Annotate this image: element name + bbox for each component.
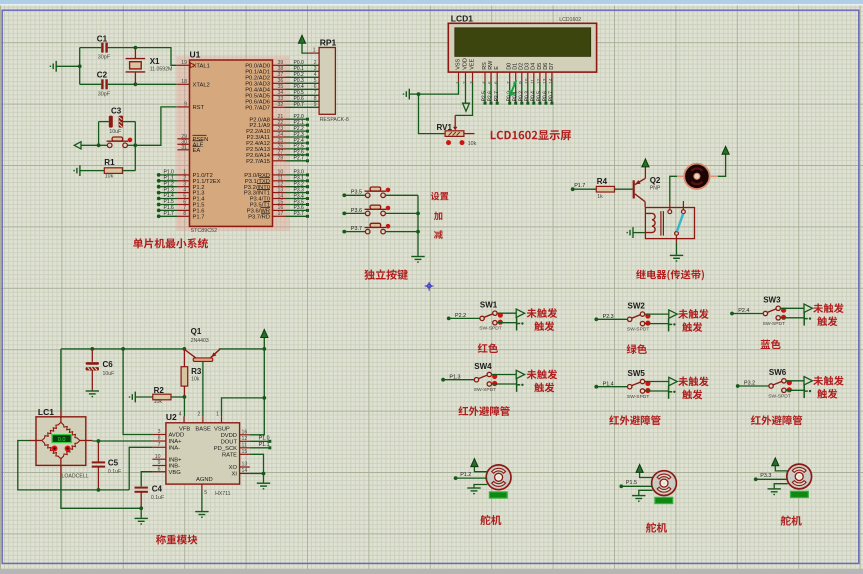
svg-text:10k: 10k bbox=[191, 377, 200, 383]
SW3 state label 触发 bbox=[817, 316, 837, 326]
green selection arrow bbox=[510, 80, 517, 95]
servo motor 3 top slot bbox=[792, 467, 806, 472]
svg-text:SW2: SW2 bbox=[628, 302, 646, 311]
svg-text:PNP: PNP bbox=[650, 185, 661, 191]
wire: reset to R1 bbox=[134, 145, 136, 170]
switch SW4 throw1 contact bbox=[487, 372, 491, 376]
svg-text:P1.1: P1.1 bbox=[259, 442, 270, 448]
LCD1 screen bbox=[455, 28, 591, 57]
svg-text:8: 8 bbox=[158, 436, 161, 442]
svg-text:LCD1602: LCD1602 bbox=[559, 17, 581, 23]
pin P0.6 stub bbox=[273, 100, 286, 102]
svg-text:C1: C1 bbox=[97, 35, 108, 44]
servo motor 3 hub center bbox=[798, 475, 801, 478]
wire: gnd to R2 bbox=[135, 396, 153, 398]
svg-text:P0.4: P0.4 bbox=[530, 91, 536, 102]
svg-text:10k: 10k bbox=[154, 399, 163, 405]
switch SW2 input net dot bbox=[594, 317, 598, 321]
P3.3 name overline bbox=[257, 189, 270, 191]
svg-text:INB+: INB+ bbox=[169, 457, 183, 463]
motor left lead bbox=[677, 175, 684, 177]
servo motor 1 gnd wire bbox=[474, 485, 487, 489]
svg-text:P1.7: P1.7 bbox=[574, 183, 585, 189]
junction: RATE/XI bbox=[262, 472, 266, 476]
pin PSEN stub bbox=[177, 138, 189, 140]
wire: R2 to VFB node bbox=[171, 396, 184, 398]
switch SW6 throw1 contact bbox=[782, 379, 786, 383]
node P3.5 (button) bbox=[342, 193, 346, 197]
switch SW5 terminal arrow bbox=[669, 377, 677, 385]
wire: LCD D4 net bbox=[533, 81, 535, 102]
junction: VSS/RV1 bbox=[417, 92, 421, 96]
junction: reset node bbox=[133, 143, 137, 147]
switch SW4 throw1 wire bbox=[492, 374, 517, 376]
U2 pin INB- stub bbox=[152, 465, 166, 467]
svg-text:19: 19 bbox=[181, 60, 187, 66]
svg-text:XO: XO bbox=[229, 465, 238, 471]
resistor R1 (10k) bbox=[104, 168, 122, 174]
RV1 wiper arrow bbox=[453, 127, 457, 131]
LCD pin D5 stub bbox=[539, 72, 541, 81]
servo motor 2 caption 舵机 bbox=[646, 522, 667, 532]
switch SW2 terminal bar bbox=[669, 318, 673, 331]
svg-text:P2.3: P2.3 bbox=[603, 314, 614, 320]
svg-text:11: 11 bbox=[242, 442, 247, 448]
ground (RATE/XI) bbox=[257, 483, 270, 489]
svg-text:SW6: SW6 bbox=[769, 368, 787, 377]
svg-text:LOADCELL: LOADCELL bbox=[62, 473, 89, 479]
ground (buttons) bbox=[411, 257, 424, 263]
node P2.5 wire end bbox=[484, 102, 487, 105]
ground (R1) bbox=[74, 165, 80, 176]
motor right lead bbox=[710, 175, 719, 177]
wire: P1.7 net bbox=[159, 215, 178, 217]
power terminal (motor) bbox=[722, 146, 729, 154]
switch SW3 input net dot bbox=[730, 312, 734, 316]
svg-text:11.0592M: 11.0592M bbox=[150, 67, 173, 73]
LC1 bridge resistor b bbox=[61, 422, 80, 440]
switch SW6 throw2 wire bbox=[786, 389, 804, 391]
switch SW3 throw1 wire bbox=[780, 307, 804, 309]
capacitor C5 (0.1uF) bbox=[92, 462, 105, 466]
servo motor 1 hub bbox=[495, 473, 503, 481]
wire: gnd to R1 bbox=[80, 170, 104, 172]
wire: LCD RS net bbox=[484, 81, 486, 102]
pin P2.2 stub bbox=[273, 130, 286, 132]
servo motor 3 caption 舵机 bbox=[781, 515, 802, 525]
chip U1 body bbox=[190, 60, 273, 226]
ground (C4/LC1) bbox=[135, 518, 148, 524]
switch SW4 lever bbox=[479, 375, 488, 379]
svg-text:RESPACK-8: RESPACK-8 bbox=[320, 117, 349, 123]
svg-text:P0.1: P0.1 bbox=[512, 91, 518, 102]
node P1.0 wire end bbox=[268, 440, 271, 443]
U2 pin VFB stub bbox=[183, 416, 185, 423]
svg-text:XTAL2: XTAL2 bbox=[193, 82, 210, 88]
wire: LC1 left loop bbox=[18, 441, 129, 490]
caption 称重模块 bbox=[156, 535, 197, 545]
caption 独立按键 bbox=[364, 269, 408, 280]
svg-text:P3.2: P3.2 bbox=[744, 381, 755, 387]
node P1.7 wire end bbox=[157, 214, 161, 218]
node P3.7 wire end bbox=[306, 215, 309, 218]
svg-text:10: 10 bbox=[524, 78, 530, 84]
junction: R3/R2/VFB bbox=[183, 395, 187, 399]
svg-text:P2.7: P2.7 bbox=[494, 91, 500, 102]
motor bottom slot bbox=[691, 182, 702, 185]
wire: R1 to reset node bbox=[123, 170, 136, 172]
LC1 bottom pin stub bbox=[60, 459, 62, 478]
transistor Q1 collector lead bbox=[185, 350, 196, 358]
wire: VFB riser bbox=[183, 397, 185, 416]
wire: C1 right bbox=[108, 47, 136, 49]
wire: arrow to button bbox=[81, 144, 108, 146]
pin P0.2 stub bbox=[273, 76, 286, 78]
SW5 state label 触发 bbox=[682, 390, 702, 400]
servo motor 3 body bbox=[787, 464, 812, 489]
LCD pin D7 stub bbox=[551, 72, 553, 81]
svg-text:1k: 1k bbox=[597, 194, 603, 200]
wire: Q1 emitter to power rail bbox=[219, 348, 264, 350]
switch SW4 terminal bar bbox=[517, 378, 521, 391]
switch SW2 pole wire bbox=[596, 318, 627, 320]
wire: P0.4 to RP1 bbox=[286, 88, 320, 90]
servo motor 3 vcc power arrow bbox=[772, 458, 779, 466]
svg-text:SW-SPDT: SW-SPDT bbox=[479, 326, 501, 332]
transistor Q2 base bar bbox=[633, 180, 635, 198]
svg-text:RP1: RP1 bbox=[320, 37, 337, 47]
switch SW2 terminal arrow bbox=[669, 310, 677, 318]
LC1 button right bbox=[65, 446, 71, 452]
resistor R4 (1k) bbox=[596, 186, 614, 192]
wire: reset to RST pin bbox=[135, 107, 177, 145]
svg-text:SW5: SW5 bbox=[628, 369, 646, 378]
junction: C5 bottom bbox=[97, 488, 101, 492]
LCD1 body bbox=[448, 23, 596, 72]
svg-text:7: 7 bbox=[158, 442, 161, 448]
wire: P1.5 net bbox=[159, 204, 178, 206]
svg-text:12: 12 bbox=[536, 78, 542, 84]
SW2 state label 触发 bbox=[682, 322, 702, 332]
LCD pin RW stub bbox=[490, 72, 492, 81]
wire: LCD D0 net bbox=[509, 81, 511, 102]
LC1 bridge resistor a bbox=[42, 422, 61, 440]
ALE overline bbox=[193, 140, 204, 142]
C5 bottom lead bbox=[97, 467, 99, 490]
ground (crystal circuit) bbox=[50, 61, 56, 72]
wire: P3.4 net bbox=[286, 198, 307, 200]
svg-text:15: 15 bbox=[242, 449, 248, 455]
switch SW6 lever bbox=[773, 381, 782, 385]
node P1.4 wire end bbox=[157, 197, 161, 201]
U2 pin VSUP stub bbox=[221, 416, 223, 423]
switch SW3 throw2 contact bbox=[776, 316, 780, 320]
node P0.2 wire end bbox=[520, 102, 523, 105]
svg-text:P0.7: P0.7 bbox=[294, 102, 305, 108]
P3.1 name overline bbox=[259, 177, 270, 179]
wire: P3.7 to button bbox=[344, 231, 365, 233]
U2 pin DOUT stub bbox=[240, 440, 250, 442]
caption 设置 bbox=[431, 192, 449, 201]
node P0.5 wire end bbox=[538, 102, 541, 105]
capacitor C6 (10uF) bbox=[86, 362, 99, 370]
servo motor 1 vcc wire bbox=[474, 467, 487, 472]
wire: P0.7 to RP1 bbox=[286, 106, 320, 108]
switch SW6 pole contact bbox=[769, 384, 773, 388]
svg-text:12: 12 bbox=[242, 436, 248, 442]
pin P0.3 stub bbox=[273, 82, 286, 84]
svg-text:9: 9 bbox=[184, 101, 187, 107]
wire: VEE to wiper bbox=[455, 81, 472, 115]
switch SW3 lever bbox=[767, 309, 776, 313]
wire: P2.6 net bbox=[286, 154, 307, 156]
svg-text:4: 4 bbox=[481, 81, 487, 84]
wire: button 加 to gnd bus bbox=[385, 212, 418, 214]
LC1 display bbox=[52, 435, 71, 443]
junction: Q1 collector bbox=[183, 347, 187, 351]
caption 红外避障管 bbox=[458, 406, 509, 416]
wire: X1 top pin bbox=[134, 48, 136, 59]
node P2.6 wire end bbox=[490, 102, 493, 105]
svg-text:SW3: SW3 bbox=[763, 296, 781, 305]
SW2 state label 未触发 bbox=[678, 309, 708, 319]
caption 加 bbox=[434, 212, 442, 221]
wire: C3 left bbox=[99, 121, 109, 123]
svg-text:INA+: INA+ bbox=[169, 439, 183, 445]
wire: VSS bus to RV1 bbox=[419, 94, 446, 134]
caption LCD1602显示屏 bbox=[491, 130, 571, 140]
pin P2.5 stub bbox=[273, 148, 286, 150]
node P2.6 wire end bbox=[306, 153, 309, 156]
wire: xtal bus vertical bbox=[79, 48, 81, 85]
svg-text:R4: R4 bbox=[597, 177, 608, 186]
svg-text:1: 1 bbox=[216, 412, 219, 418]
U2 pin XO stub bbox=[240, 466, 250, 468]
wire: LCD D2 net bbox=[521, 81, 523, 102]
svg-text:10uF: 10uF bbox=[103, 371, 115, 377]
switch SW3 toggle dot 2 bbox=[781, 315, 786, 320]
resistor R3 (10k) bbox=[181, 367, 188, 386]
wire: P3.6 to button bbox=[344, 212, 365, 214]
svg-text:E: E bbox=[494, 66, 500, 70]
wire: button 减 to gnd bus bbox=[385, 231, 418, 233]
wire: P0.6 to RP1 bbox=[286, 100, 320, 102]
pin P2.0 stub bbox=[273, 118, 286, 120]
svg-text:2: 2 bbox=[198, 412, 201, 418]
svg-text:18: 18 bbox=[181, 79, 187, 85]
svg-text:P2.2: P2.2 bbox=[455, 313, 466, 319]
resistor pack RP1 bbox=[319, 48, 335, 115]
pin P3.4 stub bbox=[273, 198, 286, 200]
push button (reset) bbox=[107, 137, 129, 148]
caption 绿色 bbox=[627, 344, 647, 354]
svg-text:10: 10 bbox=[155, 454, 161, 460]
svg-text:P1.7: P1.7 bbox=[193, 214, 205, 220]
svg-text:SW-SPDT: SW-SPDT bbox=[768, 393, 790, 399]
svg-text:C6: C6 bbox=[103, 360, 114, 369]
switch SW1 input net dot bbox=[447, 317, 451, 321]
svg-text:VDD: VDD bbox=[462, 58, 468, 70]
svg-text:R2: R2 bbox=[154, 386, 165, 395]
push button 设置 bbox=[365, 187, 387, 198]
wire: P3.7 net bbox=[286, 215, 307, 217]
power terminal (RP1) bbox=[298, 35, 305, 43]
pin RST stub bbox=[177, 106, 189, 108]
svg-text:Q1: Q1 bbox=[191, 327, 202, 336]
wire: P1.1 net bbox=[159, 180, 178, 182]
svg-text:10k: 10k bbox=[105, 174, 114, 180]
RV1 track marks bbox=[449, 132, 460, 135]
wire: P3.5 to button bbox=[344, 194, 365, 196]
svg-text:SW-SPDT: SW-SPDT bbox=[627, 327, 649, 333]
C4 bottom lead bbox=[140, 492, 142, 509]
U2 pin RATE stub bbox=[240, 453, 250, 455]
wire: button gnd bus bbox=[417, 195, 419, 256]
junction: emitter/power bbox=[262, 347, 266, 351]
wire: XI net bbox=[250, 473, 264, 475]
crystal X1 bbox=[126, 59, 146, 72]
wire: P3.5 net bbox=[286, 204, 307, 206]
XTAL1 clock mark bbox=[190, 63, 195, 68]
U2 pin XI stub bbox=[240, 473, 250, 475]
node P2.0 wire end bbox=[306, 118, 309, 121]
switch SW5 throw1 wire bbox=[645, 381, 669, 383]
svg-text:DVDD: DVDD bbox=[221, 433, 237, 439]
pin P3.0 stub bbox=[273, 174, 286, 176]
relay contact pole bbox=[675, 232, 679, 236]
pin P3.2 stub bbox=[273, 186, 286, 188]
transistor Q2 collector bbox=[635, 194, 645, 202]
switch SW2 throw1 contact bbox=[640, 312, 644, 316]
svg-text:SW-SPDT: SW-SPDT bbox=[763, 321, 785, 327]
wire: LCD D6 net bbox=[545, 81, 547, 102]
svg-text:14: 14 bbox=[548, 78, 554, 84]
caption 减 bbox=[434, 230, 443, 239]
junction: VSUP/power bbox=[262, 396, 266, 400]
pin P2.7 stub bbox=[273, 160, 286, 162]
U2 pin PD_SCK stub bbox=[240, 447, 250, 449]
wire: C1 left bbox=[80, 47, 102, 49]
motor body bbox=[684, 164, 709, 189]
servo motor 1 hub center bbox=[497, 476, 500, 479]
svg-text:AVDD: AVDD bbox=[169, 433, 185, 439]
wire: XTAL2 net bbox=[135, 83, 177, 85]
SW3 state label 未触发 bbox=[813, 303, 843, 313]
switch SW5 pole contact bbox=[628, 385, 632, 389]
servo motor 2 mount base bbox=[655, 497, 673, 503]
wire: button 设置 to gnd bus bbox=[385, 194, 418, 196]
svg-text:VSS: VSS bbox=[455, 58, 461, 69]
svg-text:R3: R3 bbox=[191, 367, 202, 376]
SW6 state label 未触发 bbox=[813, 376, 843, 386]
svg-text:P2.4: P2.4 bbox=[738, 308, 749, 314]
pin P1.3 stub bbox=[177, 192, 189, 194]
svg-text:P2.6: P2.6 bbox=[488, 91, 494, 102]
switch SW1 terminal bar bbox=[517, 317, 521, 330]
RV1 wiper stem bbox=[454, 115, 456, 128]
power terminal (Q2) bbox=[642, 159, 649, 167]
node P3.1 wire end bbox=[306, 179, 309, 182]
wire: P0.0 to RP1 bbox=[286, 64, 320, 66]
wire: PD_SCK net bbox=[250, 447, 268, 449]
svg-text:RV1: RV1 bbox=[437, 123, 453, 132]
wire: P3.2 net bbox=[286, 186, 307, 188]
P3.7 name overline bbox=[261, 212, 270, 214]
switch SW4 terminal arrow bbox=[516, 370, 524, 378]
node P3.5 wire end bbox=[306, 203, 309, 206]
relay pin pole lead bbox=[676, 235, 678, 242]
wire: P2.4 net bbox=[286, 142, 307, 144]
svg-text:P1.0: P1.0 bbox=[259, 436, 270, 442]
junction: C4/LC1 gnd bbox=[139, 506, 143, 510]
svg-text:AGND: AGND bbox=[196, 477, 213, 483]
svg-text:13: 13 bbox=[242, 462, 248, 468]
motor top slot bbox=[691, 168, 702, 171]
LCD pin D1 stub bbox=[515, 72, 517, 81]
node P3.7 (button) bbox=[342, 230, 346, 234]
svg-text:LCD1: LCD1 bbox=[451, 14, 473, 24]
svg-text:VEE: VEE bbox=[469, 58, 475, 69]
RV1 adjust dot minus bbox=[446, 140, 451, 145]
pin P1.1 stub bbox=[177, 180, 189, 182]
node P1.1 wire end bbox=[268, 446, 271, 449]
motor hub bbox=[694, 173, 700, 179]
servo motor 2 hub bbox=[660, 479, 668, 487]
node P1.3 wire end bbox=[157, 191, 161, 195]
servo motor 1 vcc power arrow bbox=[471, 459, 478, 467]
pin P3.5 stub bbox=[273, 204, 286, 206]
switch SW6 toggle dot 2 bbox=[787, 387, 792, 392]
pin P3.3 stub bbox=[273, 192, 286, 194]
svg-text:7: 7 bbox=[506, 81, 512, 84]
ground (relay coil) bbox=[627, 227, 633, 238]
servo motor 2 gnd wire bbox=[639, 490, 653, 495]
wire: top rail bbox=[61, 348, 184, 350]
node P3.0 wire end bbox=[306, 173, 309, 176]
servo motor 1 signal net dot bbox=[454, 476, 458, 480]
junction: btn bus 2 bbox=[416, 230, 420, 234]
wire: VDD bbox=[465, 81, 467, 103]
pin P1.7 stub bbox=[177, 215, 189, 217]
node P2.2 wire end bbox=[306, 130, 309, 133]
caption 红外避障管 bbox=[609, 415, 660, 425]
C5 top lead bbox=[97, 441, 99, 462]
svg-text:BASE: BASE bbox=[195, 427, 211, 433]
EA overline bbox=[193, 145, 201, 147]
svg-text:3: 3 bbox=[158, 429, 161, 435]
svg-text:SW-SPDT: SW-SPDT bbox=[627, 394, 649, 400]
switch SW5 toggle dot 1 bbox=[645, 381, 650, 386]
U1 selection highlight bbox=[176, 56, 290, 231]
node P2.4 wire end bbox=[306, 142, 309, 145]
switch SW6 pole wire bbox=[738, 385, 769, 387]
svg-text:6: 6 bbox=[158, 466, 161, 472]
switch SW1 pole contact bbox=[480, 316, 484, 320]
wire: R4 to Q2 base bbox=[615, 188, 633, 190]
svg-text:D1: D1 bbox=[513, 63, 519, 70]
svg-text:P0.7/AD7: P0.7/AD7 bbox=[245, 105, 270, 111]
svg-text:RST: RST bbox=[193, 105, 205, 111]
pin P2.3 stub bbox=[273, 136, 286, 138]
switch SW4 throw2 contact bbox=[487, 382, 491, 386]
wire: P2.5 net bbox=[286, 148, 307, 150]
pin P1.4 stub bbox=[177, 198, 189, 200]
svg-text:P2.7: P2.7 bbox=[294, 156, 305, 162]
U2 pin INA- stub bbox=[152, 446, 166, 448]
Q2 collector lead bbox=[644, 202, 646, 207]
wire: VSUP bbox=[222, 398, 265, 416]
capacitor C4 (0.1uF) bbox=[135, 488, 148, 492]
